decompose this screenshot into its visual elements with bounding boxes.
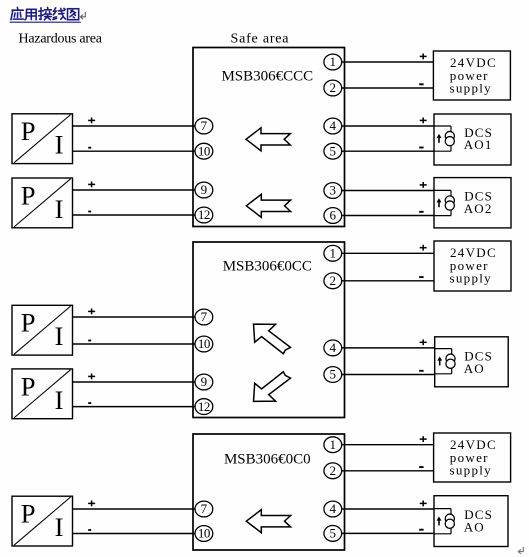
svg-text:AO: AO xyxy=(464,520,485,535)
svg-text:supply: supply xyxy=(450,463,492,478)
svg-text:MSB306€CCC: MSB306€CCC xyxy=(221,69,313,85)
svg-text:supply: supply xyxy=(450,271,492,286)
svg-text:4: 4 xyxy=(330,118,337,133)
svg-text:5: 5 xyxy=(330,367,337,382)
svg-text:4: 4 xyxy=(330,340,337,355)
svg-text:2: 2 xyxy=(330,273,337,288)
svg-text:1: 1 xyxy=(330,54,337,69)
svg-text:AO: AO xyxy=(464,361,485,376)
svg-text:12: 12 xyxy=(198,399,210,414)
svg-text:1: 1 xyxy=(330,437,337,452)
svg-text:4: 4 xyxy=(330,501,337,516)
svg-text:MSB306€0C0: MSB306€0C0 xyxy=(224,451,311,467)
svg-text:7: 7 xyxy=(201,118,208,133)
svg-text:9: 9 xyxy=(201,182,208,197)
svg-text:AO1: AO1 xyxy=(464,137,493,152)
svg-text:MSB306€0CC: MSB306€0CC xyxy=(223,258,312,274)
svg-text:7: 7 xyxy=(201,501,208,516)
svg-text:10: 10 xyxy=(198,526,210,541)
svg-text:Safe area: Safe area xyxy=(231,32,290,47)
svg-text:3: 3 xyxy=(330,183,337,198)
svg-text:5: 5 xyxy=(330,143,337,158)
svg-text:AO2: AO2 xyxy=(464,201,493,216)
svg-text:10: 10 xyxy=(198,336,210,351)
svg-text:12: 12 xyxy=(198,207,210,222)
svg-text:Hazardous area: Hazardous area xyxy=(19,32,103,47)
svg-text:9: 9 xyxy=(201,374,208,389)
svg-text:7: 7 xyxy=(201,309,208,324)
svg-text:5: 5 xyxy=(330,526,337,541)
svg-text:2: 2 xyxy=(330,463,337,478)
svg-text:2: 2 xyxy=(330,80,337,95)
svg-text:6: 6 xyxy=(330,208,337,223)
svg-text:10: 10 xyxy=(198,143,210,158)
svg-text:supply: supply xyxy=(450,81,492,96)
svg-text:1: 1 xyxy=(330,246,337,261)
